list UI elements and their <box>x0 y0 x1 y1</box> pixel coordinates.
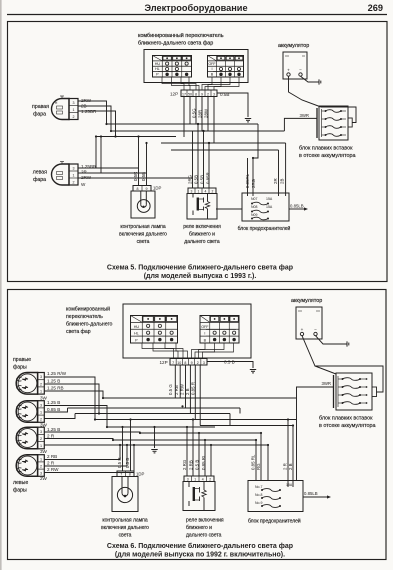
svg-text:OFF: OFF <box>208 62 216 66</box>
svg-text:Схема 5. Подключение ближнего-: Схема 5. Подключение ближнего-дальнего с… <box>107 264 293 272</box>
svg-text:0.5R: 0.5R <box>133 172 138 181</box>
svg-text:фары: фары <box>13 488 27 494</box>
svg-text:0.85 RL: 0.85 RL <box>251 454 256 470</box>
svg-text:1.25 RB: 1.25 RB <box>47 386 64 391</box>
svg-text:ближнего-дальнего света фар: ближнего-дальнего света фар <box>138 41 213 47</box>
svg-text:1: 1 <box>40 444 42 448</box>
svg-text:реле включения: реле включения <box>186 518 224 524</box>
svg-text:3: 3 <box>40 403 42 407</box>
svg-text:1: 1 <box>40 457 42 461</box>
svg-text:2 R: 2 R <box>283 463 288 470</box>
svg-text:4: 4 <box>202 477 204 481</box>
svg-text:50: 50 <box>188 92 192 96</box>
svg-text:3: 3 <box>40 375 42 379</box>
svg-text:ближнего-дальнего: ближнего-дальнего <box>66 322 112 328</box>
svg-text:0.5G: 0.5G <box>192 108 197 118</box>
svg-text:комбинированный переключатель: комбинированный переключатель <box>138 32 224 39</box>
svg-text:0.5 G: 0.5 G <box>168 384 173 395</box>
svg-text:правые: правые <box>13 357 31 363</box>
svg-text:I: I <box>211 67 212 71</box>
svg-text:2: 2 <box>73 181 75 185</box>
svg-text:10: 10 <box>177 361 181 365</box>
svg-text:15A: 15A <box>286 483 293 487</box>
svg-text:28R: 28R <box>198 110 203 118</box>
svg-text:4: 4 <box>205 189 207 193</box>
svg-text:аккумулятор: аккумулятор <box>278 43 309 49</box>
svg-text:2: 2 <box>207 92 209 96</box>
svg-text:(для моделей выпуска с 1993 г.: (для моделей выпуска с 1993 г.). <box>144 272 257 280</box>
svg-text:2: 2 <box>209 477 211 481</box>
svg-text:2 RB: 2 RB <box>47 454 57 459</box>
svg-text:аккумулятор: аккумулятор <box>291 298 322 304</box>
svg-text:1: 1 <box>194 477 196 481</box>
svg-text:H: H <box>55 101 58 105</box>
svg-text:переключатель: переключатель <box>66 314 103 320</box>
svg-text:0.85 R: 0.85 R <box>191 382 196 395</box>
svg-text:(для моделей выпуска по 1992 г: (для моделей выпуска по 1992 г. включите… <box>115 551 285 559</box>
svg-text:2: 2 <box>73 115 75 119</box>
svg-text:включения дальнего: включения дальнего <box>101 525 149 531</box>
svg-text:No.9: No.9 <box>255 501 262 505</box>
svg-text:2R: 2R <box>81 170 88 175</box>
svg-text:2 RG: 2 RG <box>182 459 187 470</box>
svg-text:7: 7 <box>172 361 174 365</box>
svg-text:2RW: 2RW <box>81 98 92 103</box>
svg-text:+: + <box>301 327 304 332</box>
svg-text:15A: 15A <box>266 197 273 201</box>
svg-text:блок плавких вставок: блок плавких вставок <box>319 416 373 422</box>
svg-text:2R: 2R <box>273 178 278 184</box>
svg-text:комбинированный: комбинированный <box>66 306 110 313</box>
svg-text:3WR: 3WR <box>299 113 309 118</box>
svg-text:2 B: 2 B <box>288 463 293 470</box>
svg-text:2RW: 2RW <box>81 175 92 180</box>
svg-text:0.5 R: 0.5 R <box>117 458 122 469</box>
svg-text:−: − <box>299 68 302 73</box>
svg-text:2: 2 <box>197 361 199 365</box>
svg-text:9: 9 <box>146 187 148 191</box>
svg-text:левые: левые <box>13 480 28 486</box>
svg-text:1.25 B: 1.25 B <box>47 379 60 384</box>
svg-text:0.85LB: 0.85LB <box>304 491 318 496</box>
svg-text:1.25 B: 1.25 B <box>47 400 60 405</box>
svg-text:3WR: 3WR <box>321 381 331 386</box>
svg-text:RG: RG <box>256 463 261 470</box>
svg-text:N08: N08 <box>251 205 257 209</box>
svg-text:правая: правая <box>32 104 49 110</box>
svg-text:No.8: No.8 <box>255 493 262 497</box>
svg-text:3: 3 <box>213 92 215 96</box>
svg-text:блок предохранителей: блок предохранителей <box>238 225 291 232</box>
svg-text:Схема 6. Подключение ближнего-: Схема 6. Подключение ближнего-дальнего с… <box>107 542 293 550</box>
svg-text:левая: левая <box>33 170 47 176</box>
svg-text:HL: HL <box>155 67 160 71</box>
svg-text:3: 3 <box>191 189 193 193</box>
svg-text:OFF: OFF <box>201 325 209 329</box>
svg-text:реле включения: реле включения <box>183 224 221 230</box>
svg-text:0.5 B: 0.5 B <box>125 458 130 468</box>
svg-text:12P: 12P <box>160 360 168 365</box>
svg-text:1.25 R/W: 1.25 R/W <box>47 371 67 376</box>
svg-text:8: 8 <box>137 187 139 191</box>
svg-text:0.5 B: 0.5 B <box>224 360 235 365</box>
svg-text:8: 8 <box>184 361 186 365</box>
svg-text:1.25 B: 1.25 B <box>47 427 60 432</box>
svg-text:W: W <box>81 182 86 187</box>
svg-text:2 R: 2 R <box>47 434 55 439</box>
svg-text:No.7: No.7 <box>255 485 262 489</box>
svg-text:9: 9 <box>191 361 193 365</box>
svg-text:1.25BR: 1.25BR <box>81 109 97 114</box>
svg-text:контрольная лампа: контрольная лампа <box>120 224 166 230</box>
svg-text:дальнего света: дальнего света <box>184 239 220 245</box>
svg-text:HU: HU <box>155 62 161 66</box>
svg-text:2B: 2B <box>280 179 285 184</box>
svg-text:0.85LB: 0.85LB <box>290 204 304 209</box>
svg-text:1DP: 1DP <box>136 472 144 477</box>
svg-text:света: света <box>137 239 150 245</box>
svg-text:в отсеке аккумулятора: в отсеке аккумулятора <box>299 153 355 159</box>
svg-text:3: 3 <box>187 477 189 481</box>
svg-text:8: 8 <box>129 472 131 476</box>
svg-text:2 RW: 2 RW <box>47 467 59 472</box>
svg-text:3: 3 <box>73 167 75 171</box>
svg-text:фара: фара <box>33 112 46 118</box>
svg-text:ближнего и: ближнего и <box>189 232 215 238</box>
svg-text:3: 3 <box>73 101 75 105</box>
svg-text:блок плавких вставок: блок плавких вставок <box>299 146 353 152</box>
svg-text:N09: N09 <box>251 213 257 217</box>
svg-text:9: 9 <box>201 92 203 96</box>
svg-text:света фар: света фар <box>66 329 91 335</box>
svg-text:2 RB: 2 RB <box>174 385 179 395</box>
svg-text:2: 2 <box>212 189 214 193</box>
svg-text:8: 8 <box>195 92 197 96</box>
svg-text:7: 7 <box>120 472 122 476</box>
svg-text:в отсеке аккумулятора: в отсеке аккумулятора <box>319 423 375 429</box>
svg-text:фары: фары <box>13 365 27 371</box>
svg-text:Электрооборудование: Электрооборудование <box>144 3 247 13</box>
svg-text:1: 1 <box>73 108 75 112</box>
svg-text:света: света <box>119 533 132 539</box>
svg-text:0.85 B: 0.85 B <box>47 407 60 412</box>
svg-text:включения дальнего: включения дальнего <box>119 232 167 238</box>
svg-text:2RG: 2RG <box>251 178 256 188</box>
svg-text:фара: фара <box>33 177 46 183</box>
svg-text:дальнего света: дальнего света <box>186 533 222 539</box>
svg-text:блок предохранителей: блок предохранителей <box>248 518 301 525</box>
svg-text:2 R: 2 R <box>47 461 55 466</box>
svg-text:+: + <box>287 68 290 73</box>
svg-text:контрольная лампа: контрольная лампа <box>102 518 148 524</box>
svg-text:269: 269 <box>368 3 383 13</box>
svg-text:1: 1 <box>40 411 42 415</box>
svg-text:3: 3 <box>40 430 42 434</box>
svg-text:2W: 2W <box>40 476 48 481</box>
svg-text:ближнего и: ближнего и <box>186 525 212 531</box>
svg-text:2: 2 <box>40 465 42 469</box>
svg-text:2: 2 <box>40 418 42 422</box>
svg-text:28W: 28W <box>204 108 209 118</box>
svg-text:2RG: 2RG <box>188 174 193 184</box>
svg-text:HL: HL <box>134 332 139 336</box>
svg-text:1: 1 <box>40 390 42 394</box>
svg-text:2 B: 2 B <box>185 388 190 395</box>
svg-text:1DP: 1DP <box>153 186 161 191</box>
svg-text:2: 2 <box>40 382 42 386</box>
svg-text:17: 17 <box>182 92 186 96</box>
svg-text:N07: N07 <box>251 197 257 201</box>
svg-text:0.5B: 0.5B <box>141 172 146 181</box>
svg-text:HU: HU <box>134 325 140 329</box>
svg-text:12P: 12P <box>170 92 178 97</box>
svg-text:1: 1 <box>198 189 200 193</box>
svg-text:0.85R: 0.85R <box>206 172 211 184</box>
svg-text:I: I <box>204 332 205 336</box>
svg-text:−: − <box>314 327 317 332</box>
svg-text:15A: 15A <box>266 205 273 209</box>
svg-text:3: 3 <box>203 361 205 365</box>
svg-text:1: 1 <box>73 174 75 178</box>
svg-text:2 RW: 2 RW <box>180 383 185 395</box>
svg-text:2: 2 <box>40 437 42 441</box>
